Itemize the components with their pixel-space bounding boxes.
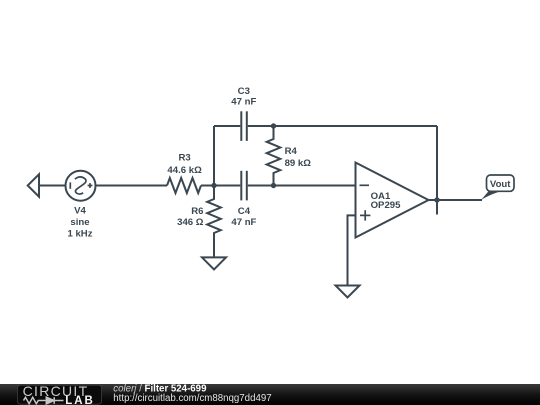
- resistor R4: [267, 126, 281, 186]
- svg-text:89 kΩ: 89 kΩ: [285, 158, 312, 169]
- label R4: [285, 146, 312, 169]
- svg-text:sine: sine: [70, 217, 89, 228]
- resistor R6: [207, 186, 221, 258]
- label R3: [167, 153, 202, 176]
- node (R3/R6/C4): [211, 183, 216, 188]
- logo box: [18, 385, 102, 404]
- logo glyph (resistor-diode): [24, 397, 64, 404]
- wire: [96, 185, 168, 187]
- voltage source V4: [66, 171, 96, 201]
- svg-text:R4: R4: [285, 146, 298, 157]
- label C4: [231, 206, 256, 228]
- svg-text:R6: R6: [191, 206, 203, 217]
- wire (right vertical): [436, 126, 438, 215]
- capacitor C3: [240, 111, 242, 141]
- label OA1: [371, 191, 402, 211]
- wire: [248, 185, 356, 187]
- svg-text:47 nF: 47 nF: [231, 217, 256, 228]
- svg-text:1 kHz: 1 kHz: [67, 229, 92, 240]
- op-amp OA1: [356, 163, 429, 238]
- svg-text:LAB: LAB: [65, 395, 95, 405]
- resistor R3: [167, 178, 201, 193]
- svg-text:http://circuitlab.com/cm88nqg7: http://circuitlab.com/cm88nqg7dd497: [113, 393, 271, 404]
- ground terminal (input, rotated left): [28, 174, 39, 196]
- label R6: [177, 206, 204, 228]
- svg-text:346 Ω: 346 Ω: [177, 217, 204, 228]
- svg-text:C4: C4: [238, 206, 251, 217]
- svg-text:R3: R3: [178, 153, 190, 164]
- wire (top rail left): [214, 125, 240, 127]
- svg-text:C3: C3: [238, 86, 250, 97]
- ground (op-amp +): [336, 286, 360, 298]
- wire: [39, 185, 66, 187]
- label C3: [231, 86, 256, 108]
- node (C4/R4): [271, 183, 276, 188]
- capacitor C4: [240, 171, 242, 201]
- flag Vout: [481, 175, 515, 201]
- svg-text:OP295: OP295: [371, 200, 402, 211]
- svg-text:44.6 kΩ: 44.6 kΩ: [167, 165, 202, 176]
- svg-text:V4: V4: [74, 206, 86, 217]
- label V4: [67, 206, 92, 240]
- wire (top rail right): [248, 125, 437, 127]
- wire: [201, 185, 240, 187]
- svg-text:Vout: Vout: [490, 179, 511, 190]
- ground (below R6): [202, 257, 226, 269]
- wire (left vertical): [213, 126, 215, 186]
- wire (output): [429, 199, 483, 201]
- svg-text:47 nF: 47 nF: [231, 97, 256, 108]
- node (C3/R4): [271, 123, 276, 128]
- wire (+ input): [348, 215, 356, 285]
- node (output): [434, 197, 439, 202]
